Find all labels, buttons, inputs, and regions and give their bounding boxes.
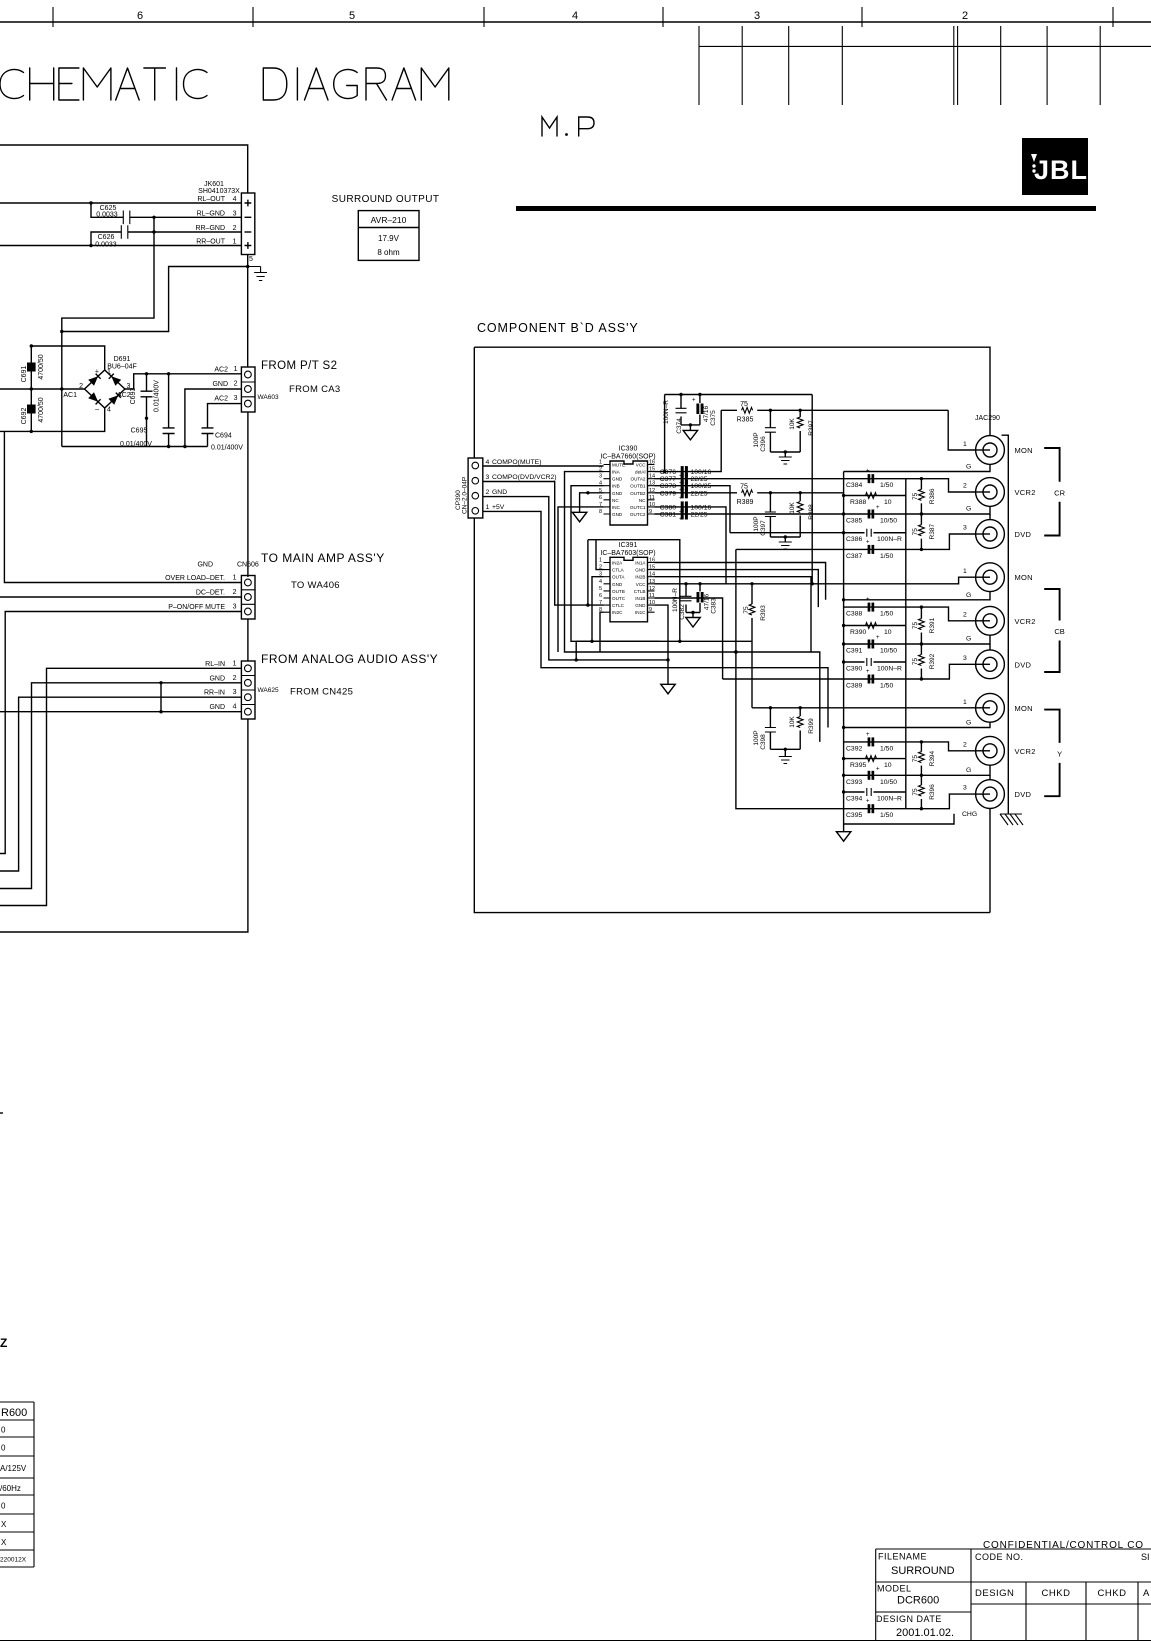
jack VCR2 xyxy=(976,478,1005,507)
svg-text:16: 16 xyxy=(649,558,655,564)
svg-text:R387: R387 xyxy=(929,524,936,540)
capacitor C626 xyxy=(91,232,241,246)
svg-text:+: + xyxy=(866,799,870,805)
svg-text:VCR2: VCR2 xyxy=(1015,488,1036,497)
jack DVD xyxy=(976,650,1005,679)
svg-text:P–ON/OFF MUTE: P–ON/OFF MUTE xyxy=(168,604,225,611)
svg-text:100/16: 100/16 xyxy=(691,469,712,476)
connector WA603 xyxy=(241,367,255,412)
wire pair top xyxy=(769,706,772,709)
svg-text:C381: C381 xyxy=(660,511,676,518)
wire OUTC2 row xyxy=(655,513,844,515)
svg-text:C376: C376 xyxy=(660,469,676,476)
svg-text:GND: GND xyxy=(492,489,507,496)
svg-text:3: 3 xyxy=(233,210,237,217)
svg-text:IC–BA7603(SOP): IC–BA7603(SOP) xyxy=(600,550,655,557)
svg-text:22/25: 22/25 xyxy=(691,490,708,497)
svg-text:AC1: AC1 xyxy=(63,392,77,399)
capacitor C394 xyxy=(844,791,906,793)
svg-text:+: + xyxy=(876,766,880,772)
svg-text:R395: R395 xyxy=(850,762,866,769)
svg-text:0.01/400V: 0.01/400V xyxy=(120,441,152,448)
svg-text:2: 2 xyxy=(963,483,967,490)
svg-text:+: + xyxy=(866,469,870,475)
svg-text:COMPONENT B`D ASS'Y: COMPONENT B`D ASS'Y xyxy=(477,321,639,335)
svg-text:IN1A: IN1A xyxy=(635,561,646,566)
wire IN1B row to C389 feed xyxy=(655,598,723,679)
svg-text:75: 75 xyxy=(912,492,919,500)
wire C691 top rail xyxy=(31,346,104,370)
svg-text:DVD: DVD xyxy=(1015,660,1032,669)
svg-text:14: 14 xyxy=(649,474,655,480)
svg-text:IN1C: IN1C xyxy=(635,610,646,615)
svg-text:+: + xyxy=(692,398,696,404)
ruler tick marks xyxy=(53,7,1113,27)
svg-text:C691: C691 xyxy=(21,366,28,383)
resistor R390 10 xyxy=(844,625,906,627)
wire OUTB2 to R389 xyxy=(655,492,738,494)
svg-text:C374: C374 xyxy=(676,418,683,434)
svg-text:75: 75 xyxy=(740,401,748,408)
svg-text:OUTC1: OUTC1 xyxy=(630,505,646,510)
resistor R399 10K xyxy=(799,708,801,716)
svg-text:3: 3 xyxy=(754,10,760,22)
svg-text:Y: Y xyxy=(1057,749,1062,758)
svg-text:C396: C396 xyxy=(760,436,767,452)
svg-text:+: + xyxy=(866,597,870,603)
svg-text:0.0033: 0.0033 xyxy=(95,242,117,249)
wire COMPO(MUTE) to IC390 pin1 xyxy=(483,465,604,467)
svg-text:4: 4 xyxy=(107,407,111,414)
svg-text:OUTC: OUTC xyxy=(612,596,626,601)
svg-text:5: 5 xyxy=(349,10,355,22)
svg-text:CHKD: CHKD xyxy=(1098,1588,1127,1599)
svg-text:R389: R389 xyxy=(737,499,754,506)
svg-text:10K: 10K xyxy=(789,502,796,514)
svg-text:C380: C380 xyxy=(660,504,676,511)
svg-text:8: 8 xyxy=(599,509,602,515)
svg-text:C692: C692 xyxy=(21,408,28,425)
svg-text:MUTE: MUTE xyxy=(612,463,625,468)
svg-text:IC391: IC391 xyxy=(619,542,638,549)
svg-text:–: – xyxy=(95,407,99,414)
svg-text:2: 2 xyxy=(962,10,968,22)
svg-text:G: G xyxy=(966,506,971,513)
svg-text:NC: NC xyxy=(612,498,619,503)
svg-text:100N–R: 100N–R xyxy=(672,588,679,612)
capacitor C392 xyxy=(844,742,990,751)
bridge rectifier D691 xyxy=(85,370,125,408)
svg-text:X: X xyxy=(1,1538,7,1547)
svg-text:1: 1 xyxy=(963,568,967,575)
svg-text:GND: GND xyxy=(209,704,225,711)
capacitor C386 xyxy=(844,532,906,534)
svg-text:C383: C383 xyxy=(711,598,718,614)
svg-text:DVD: DVD xyxy=(1015,530,1032,539)
wire dc-det xyxy=(0,596,241,598)
svg-text:R386: R386 xyxy=(929,488,936,504)
wire bottom cap rail xyxy=(62,446,208,448)
thick separator line xyxy=(516,206,1096,211)
svg-text:47/16: 47/16 xyxy=(703,405,710,422)
svg-text:C379: C379 xyxy=(660,490,676,497)
svg-text:SH0410373X: SH0410373X xyxy=(198,188,240,195)
svg-text:C389: C389 xyxy=(846,683,862,690)
svg-text:16: 16 xyxy=(649,460,655,466)
svg-text:FROM CA3: FROM CA3 xyxy=(289,384,341,395)
resistor R386 75 xyxy=(920,479,922,490)
svg-text:1: 1 xyxy=(233,239,237,246)
svg-text:GND: GND xyxy=(612,582,623,587)
wire CHG xyxy=(844,814,954,824)
svg-text:C375: C375 xyxy=(710,410,717,426)
svg-text:+: + xyxy=(866,539,870,545)
svg-text:+: + xyxy=(679,495,683,501)
svg-text:C388: C388 xyxy=(846,611,862,618)
svg-text:4: 4 xyxy=(486,459,490,466)
svg-text:0: 0 xyxy=(1,1444,6,1453)
svg-text:+: + xyxy=(876,505,880,511)
svg-text:CHKD: CHKD xyxy=(1042,1588,1071,1599)
capacitor C384 xyxy=(844,479,990,492)
svg-text:1: 1 xyxy=(233,660,237,667)
capacitor C398 100P xyxy=(769,708,771,727)
svg-text:D691: D691 xyxy=(114,356,131,363)
svg-text:2: 2 xyxy=(963,741,967,748)
svg-text:SURROUND OUTPUT: SURROUND OUTPUT xyxy=(332,194,440,205)
border ruler line top xyxy=(0,21,1151,23)
wire GND bus xyxy=(483,497,668,685)
svg-text:DCR600: DCR600 xyxy=(897,1595,939,1607)
svg-text:R385: R385 xyxy=(737,417,754,424)
resistor R392 75 xyxy=(920,644,922,655)
svg-text:CODE NO.: CODE NO. xyxy=(975,1552,1024,1562)
svg-text:2: 2 xyxy=(233,589,237,596)
wire column right rail xyxy=(905,479,907,809)
svg-text:R390: R390 xyxy=(850,629,866,636)
svg-text:2: 2 xyxy=(234,381,238,388)
svg-text:3: 3 xyxy=(963,785,967,792)
svg-text:100N–R: 100N–R xyxy=(877,796,902,803)
svg-text:+: + xyxy=(866,669,870,675)
jack DVD xyxy=(976,780,1005,809)
wire AC2 output to WA603 pin1 xyxy=(125,374,241,389)
svg-text:AC2: AC2 xyxy=(214,367,228,374)
panel line xyxy=(1002,435,1009,814)
svg-text:WA603: WA603 xyxy=(258,394,279,401)
wire pin14 row xyxy=(655,577,812,652)
bracket CR xyxy=(1044,448,1059,536)
svg-text:C393: C393 xyxy=(846,779,862,786)
svg-text:75: 75 xyxy=(912,528,919,536)
svg-text:G: G xyxy=(966,720,971,727)
capacitor C695 xyxy=(163,374,175,447)
svg-text:SI: SI xyxy=(1141,1552,1150,1562)
capacitor C691 xyxy=(30,346,32,389)
svg-text:75: 75 xyxy=(912,788,919,796)
svg-text:3: 3 xyxy=(963,525,967,532)
svg-text:75: 75 xyxy=(743,606,750,614)
svg-text:0.0033: 0.0033 xyxy=(96,212,118,219)
svg-text:RR–IN: RR–IN xyxy=(204,690,225,697)
svg-text:RL–IN: RL–IN xyxy=(205,661,225,668)
svg-text:100P: 100P xyxy=(753,432,760,447)
svg-text:JBL: JBL xyxy=(1034,155,1088,185)
svg-text:+: + xyxy=(876,635,880,641)
svg-text:GND: GND xyxy=(612,491,623,496)
resistor R385 75 xyxy=(721,409,948,411)
svg-text:AC2: AC2 xyxy=(117,392,131,399)
wire MON CR feed xyxy=(948,410,990,450)
svg-text:CTLC: CTLC xyxy=(612,603,625,608)
resistor R389 75 xyxy=(742,490,753,496)
wire bottom rail xyxy=(0,408,105,431)
resistor R393 75 xyxy=(751,584,753,604)
svg-text:G: G xyxy=(966,636,971,643)
svg-text:10: 10 xyxy=(884,499,892,506)
svg-text:15: 15 xyxy=(649,467,655,473)
svg-text:3: 3 xyxy=(599,474,602,480)
ground xyxy=(661,684,675,694)
svg-text:0: 0 xyxy=(1,1426,6,1435)
svg-text:47/16: 47/16 xyxy=(704,593,711,610)
connector JK601 xyxy=(241,193,254,255)
wire gnd pin2 WA603 xyxy=(185,389,242,447)
svg-text:X: X xyxy=(1,1520,7,1529)
svg-text:RR–OUT: RR–OUT xyxy=(196,239,226,246)
svg-text:2: 2 xyxy=(79,383,83,390)
svg-text:1: 1 xyxy=(233,575,237,582)
wire loop to pin5 xyxy=(62,255,248,332)
svg-text:MON: MON xyxy=(1015,573,1033,582)
capacitor C694 and wire AC2 pin3 xyxy=(202,404,242,447)
svg-text:1/50: 1/50 xyxy=(880,745,893,752)
svg-text:C385: C385 xyxy=(846,518,862,525)
wire IC391 pin2 xyxy=(596,540,604,570)
svg-text:OUTA2: OUTA2 xyxy=(631,477,646,482)
svg-text:AC2: AC2 xyxy=(214,396,228,403)
svg-text:OUTB1: OUTB1 xyxy=(630,484,646,489)
resistor R387 75 xyxy=(920,514,922,525)
svg-text:FILENAME: FILENAME xyxy=(878,1552,927,1562)
revision grid top right xyxy=(699,26,1151,105)
wire COMPO(DVD/VCR2) to IC391 pin7 xyxy=(483,482,604,606)
svg-text:VCC: VCC xyxy=(636,463,646,468)
ground column xyxy=(836,832,850,842)
svg-text:/60Hz: /60Hz xyxy=(0,1484,21,1493)
connector CP390 xyxy=(468,458,483,518)
wire OUTB1 row xyxy=(655,486,731,533)
svg-text:3: 3 xyxy=(233,604,237,611)
wire RL-OUT xyxy=(0,202,241,204)
svg-text:2: 2 xyxy=(486,489,490,496)
svg-text:FROM ANALOG AUDIO ASS'Y: FROM ANALOG AUDIO ASS'Y xyxy=(261,652,438,666)
wire column left rail xyxy=(843,472,845,832)
svg-text:BU6–04F: BU6–04F xyxy=(107,364,137,371)
wire AC1 row xyxy=(0,388,85,390)
svg-text:C390: C390 xyxy=(846,666,862,673)
svg-text:COMPO(DVD/VCR2): COMPO(DVD/VCR2) xyxy=(492,474,557,481)
svg-text:GND: GND xyxy=(612,512,623,517)
wire IC390 pin4 input xyxy=(571,486,752,642)
svg-text:MON: MON xyxy=(1015,446,1033,455)
svg-text:CB: CB xyxy=(1054,627,1064,636)
svg-text:MODEL: MODEL xyxy=(877,1584,912,1594)
resistor R395 10 xyxy=(844,758,906,760)
svg-text:C387: C387 xyxy=(846,553,862,560)
svg-text:DC–DET.: DC–DET. xyxy=(196,590,225,597)
svg-text:4700/50: 4700/50 xyxy=(38,397,45,422)
svg-text:9: 9 xyxy=(649,509,652,515)
bracket CB xyxy=(1044,589,1059,672)
svg-text:1/50: 1/50 xyxy=(880,611,893,618)
svg-text:C398: C398 xyxy=(760,734,767,750)
svg-text:3: 3 xyxy=(963,655,967,662)
svg-text:10: 10 xyxy=(649,502,655,508)
svg-text:OUTA: OUTA xyxy=(612,575,625,580)
resistor R396 75 xyxy=(920,775,922,785)
jack VCR2 xyxy=(976,606,1005,635)
svg-text:CHG: CHG xyxy=(962,811,977,818)
svg-text:10/50: 10/50 xyxy=(880,779,897,786)
svg-text:C694: C694 xyxy=(215,433,232,440)
svg-text:100P: 100P xyxy=(753,516,760,531)
jack MON xyxy=(976,693,1005,722)
svg-text:100/25: 100/25 xyxy=(691,483,712,490)
svg-text:+: + xyxy=(95,369,99,376)
svg-text:R388: R388 xyxy=(850,499,866,506)
sheet bottom border xyxy=(0,1640,1151,1642)
svg-text:IN1B: IN1B xyxy=(635,596,645,601)
svg-text:GND: GND xyxy=(612,477,623,482)
svg-text:C391: C391 xyxy=(846,648,862,655)
wire IC391 outer loop xyxy=(588,540,680,642)
bracket Y xyxy=(1044,710,1059,797)
svg-text:10K: 10K xyxy=(789,716,796,728)
wire top-left frame to JK601 spine xyxy=(0,145,248,193)
svg-text:1: 1 xyxy=(963,699,967,706)
svg-text:75: 75 xyxy=(912,658,919,666)
svg-text:R391: R391 xyxy=(929,617,936,633)
wire GND pin2 xyxy=(0,683,241,889)
svg-text:17.9V: 17.9V xyxy=(378,234,400,243)
svg-text:FROM CN425: FROM CN425 xyxy=(290,687,353,698)
svg-text:1: 1 xyxy=(963,441,967,448)
svg-text:IC–BA7660(SOP): IC–BA7660(SOP) xyxy=(600,454,655,461)
capacitor C395 xyxy=(844,794,990,809)
title SCHEMATIC DIAGRAM (letters drawn as plotter strokes) xyxy=(0,68,449,100)
svg-text:OVER LOAD–DET.: OVER LOAD–DET. xyxy=(165,575,225,582)
svg-text:100N–R: 100N–R xyxy=(663,400,670,424)
svg-text:CTLA: CTLA xyxy=(612,568,625,573)
wire IN1A row xyxy=(655,563,826,600)
jack DVD xyxy=(976,520,1005,549)
svg-text:COMPO(MUTE): COMPO(MUTE) xyxy=(492,459,541,466)
svg-text:OUTB2: OUTB2 xyxy=(630,491,646,496)
svg-text:C397: C397 xyxy=(760,520,767,536)
svg-text:detAl: detAl xyxy=(635,470,645,475)
svg-text:8 ohm: 8 ohm xyxy=(377,248,400,257)
svg-text:4: 4 xyxy=(233,196,237,203)
svg-text:R396: R396 xyxy=(929,784,936,800)
svg-text:IN2C: IN2C xyxy=(612,610,623,615)
svg-text:15: 15 xyxy=(649,565,655,571)
svg-text:13: 13 xyxy=(649,481,655,487)
svg-text:1: 1 xyxy=(107,369,111,376)
resistor R394 75 xyxy=(920,742,922,752)
svg-text:0: 0 xyxy=(1,1502,6,1511)
wire gnd link xyxy=(160,683,162,712)
wire MON Y feed xyxy=(752,707,976,709)
resistor R397 10K xyxy=(799,410,801,417)
svg-text:JAC290: JAC290 xyxy=(975,415,1000,422)
wire IC391 pin10 gnd xyxy=(655,605,669,660)
capacitor C388 xyxy=(844,607,990,621)
svg-text:4700/50: 4700/50 xyxy=(38,354,45,379)
svg-text:2001.01.02.: 2001.01.02. xyxy=(896,1627,954,1639)
wire OUTA1 to R385 xyxy=(655,410,722,471)
wire pin15 row xyxy=(655,570,819,608)
svg-text:IN2B: IN2B xyxy=(635,575,645,580)
svg-text:C392: C392 xyxy=(846,745,862,752)
svg-text:2: 2 xyxy=(233,225,237,232)
svg-text:C394: C394 xyxy=(846,796,862,803)
jack MON xyxy=(976,563,1005,592)
sheet label M.P xyxy=(542,117,594,136)
svg-text:0.01/400V: 0.01/400V xyxy=(211,445,243,452)
capacitor C391 xyxy=(844,635,990,644)
ground IC390 pin5 xyxy=(580,493,604,513)
svg-text:VCC: VCC xyxy=(636,582,646,587)
svg-text:G: G xyxy=(966,767,971,774)
svg-text:OUTC2: OUTC2 xyxy=(630,512,646,517)
svg-text:INA: INA xyxy=(612,470,621,475)
capacitor C375 47/16 xyxy=(699,395,701,425)
svg-text:DVD: DVD xyxy=(1015,790,1032,799)
capacitor C393 xyxy=(844,765,990,775)
svg-text:6: 6 xyxy=(137,10,143,22)
svg-text:FROM P/T S2: FROM P/T S2 xyxy=(261,360,337,372)
title block table xyxy=(876,1549,1151,1641)
svg-text:RR–GND: RR–GND xyxy=(195,225,225,232)
svg-text:C384: C384 xyxy=(846,482,862,489)
capacitor C390 xyxy=(844,661,906,663)
ground xyxy=(779,757,792,764)
connector CN606 xyxy=(241,576,255,620)
ground xyxy=(779,542,792,549)
wire stub left edge xyxy=(0,1112,3,1114)
capacitor C374 100N-R xyxy=(680,395,682,425)
svg-text:GND: GND xyxy=(212,381,228,388)
component board box xyxy=(474,347,990,912)
svg-text:A/125V: A/125V xyxy=(0,1464,27,1473)
svg-text:RL–GND: RL–GND xyxy=(197,210,225,217)
ground at JK601 pin5 xyxy=(248,267,267,281)
svg-text:1/50: 1/50 xyxy=(880,812,893,819)
spec table bottom left xyxy=(0,1402,34,1567)
svg-text:1/50: 1/50 xyxy=(880,683,893,690)
capacitor C382 100N-R xyxy=(685,584,687,613)
svg-text:C386: C386 xyxy=(846,536,862,543)
svg-text:3: 3 xyxy=(234,395,238,402)
svg-text:WA625: WA625 xyxy=(258,687,279,694)
wire OUTA2 row xyxy=(655,478,844,480)
svg-text:10/50: 10/50 xyxy=(880,518,897,525)
svg-text:100N–R: 100N–R xyxy=(877,666,902,673)
spec box AVR-210 xyxy=(358,211,419,261)
svg-text:C695: C695 xyxy=(131,428,148,435)
svg-text:C377: C377 xyxy=(660,476,676,483)
